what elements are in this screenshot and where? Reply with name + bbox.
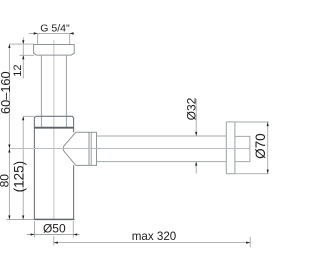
dimension max 320: [53, 236, 55, 245]
60-160 top arrow: [8, 44, 10, 48]
80 bottom arrow: [8, 216, 10, 220]
O70 bottom arrow: [267, 170, 269, 174]
dimension (125) line: [22, 116, 24, 219]
max320 left arrow: [54, 242, 58, 244]
dimension 60-160 / 80 shared line: [8, 44, 10, 220]
(125) top arrow: [22, 116, 24, 120]
inlet pipe wall right: [65, 55, 67, 127]
cup lid joint line: [34, 127, 73, 129]
centerline horizontal (outlet axis): [9, 148, 250, 150]
svg-text:Ø32: Ø32: [184, 97, 198, 120]
outlet pipe bottom: [97, 161, 227, 163]
dimension G 5/4" line: [29, 32, 74, 34]
dimension 12 bottom arrow: [22, 55, 24, 59]
centerline vertical (trap axis): [53, 40, 55, 220]
dimension O50: [34, 221, 36, 238]
cup bottom edge darker: [34, 218, 73, 220]
pipe stub after flange: [235, 136, 250, 161]
inlet pipe wall left: [40, 55, 42, 127]
svg-text:max 320: max 320: [132, 230, 176, 243]
O50 right arrow: [73, 233, 77, 235]
O32 top arrow: [195, 132, 197, 136]
60-160 bottom arrow: [8, 145, 10, 149]
G 5/4" extension line right: [69, 34, 71, 44]
outlet pipe top: [97, 135, 227, 137]
inlet nut flange: [34, 45, 75, 56]
dimension O32 line: [195, 99, 197, 136]
G 5/4" arrow right: [70, 32, 74, 34]
O70 top arrow: [267, 122, 269, 126]
cup body outline: [34, 116, 73, 219]
O32 bottom arrow: [195, 162, 197, 166]
svg-text:G 5/4": G 5/4": [40, 23, 70, 35]
extension line flange bottom: [20, 54, 35, 56]
O50 left arrow: [31, 233, 35, 235]
extension line flange top: [9, 43, 33, 45]
svg-text:12: 12: [12, 64, 24, 76]
extension line cup top: [23, 115, 34, 117]
G 5/4" arrow left: [34, 32, 38, 34]
dimension 12 top arrow: [22, 40, 24, 44]
wall flange: [226, 122, 235, 174]
outlet ring inner line: [90, 132, 92, 165]
svg-text:60–160: 60–160: [0, 71, 13, 114]
svg-text:(125): (125): [11, 161, 26, 193]
bottom reference line: [7, 219, 76, 221]
dimension O70: [235, 121, 269, 123]
svg-text:80: 80: [0, 174, 11, 188]
svg-text:Ø70: Ø70: [253, 133, 268, 159]
outlet ring nut: [89, 132, 97, 165]
(125) bottom arrow: [22, 216, 24, 220]
dimension 12 line: [22, 38, 24, 79]
max320 right arrow: [246, 242, 250, 244]
G 5/4" extension line left: [37, 34, 39, 44]
svg-text:Ø50: Ø50: [43, 221, 66, 235]
outlet cone bullet: [63, 132, 89, 165]
80 top arrow: [8, 149, 10, 153]
